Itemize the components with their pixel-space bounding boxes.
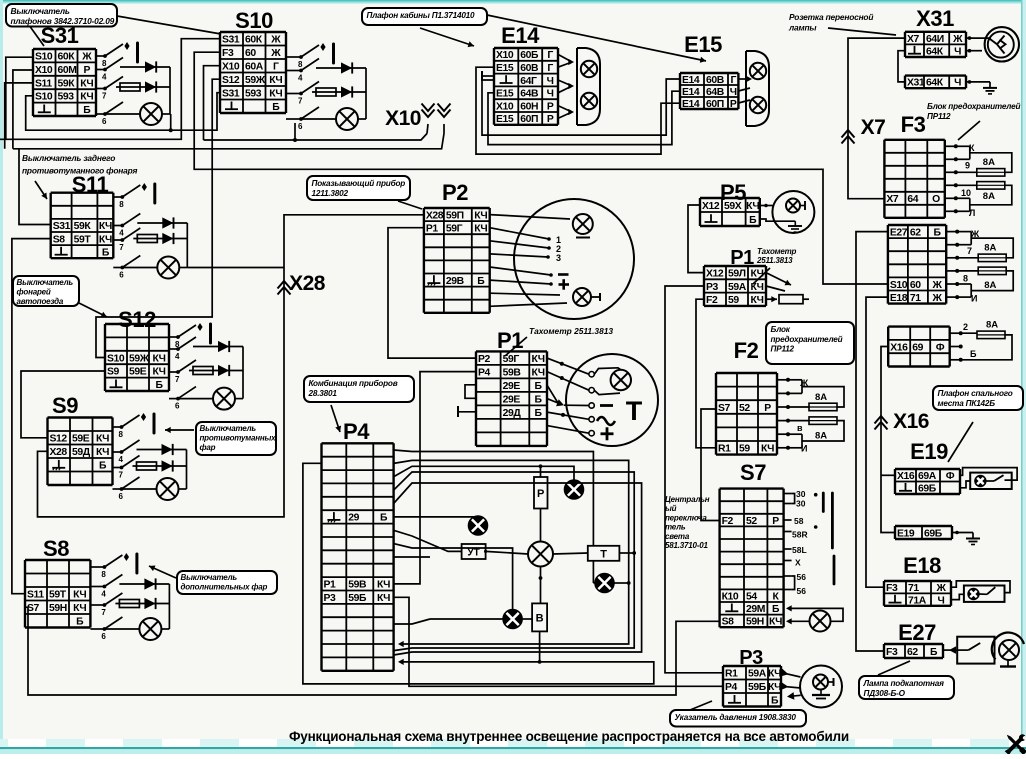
lamp unit E15 title <box>684 32 722 57</box>
svg-text:28.3801: 28.3801 <box>308 389 338 398</box>
svg-text:Ж: Ж <box>952 34 963 45</box>
caption <box>289 729 849 744</box>
wire net 59A P1tach-P3 <box>665 286 723 673</box>
svg-text:59В: 59В <box>348 580 367 591</box>
svg-text:60: 60 <box>245 48 256 59</box>
svg-text:ПР112: ПР112 <box>771 345 795 354</box>
svg-text:Р4: Р4 <box>478 367 491 378</box>
svg-text:КЧ: КЧ <box>768 682 781 693</box>
svg-text:10: 10 <box>961 188 971 198</box>
svg-text:S31: S31 <box>41 23 79 48</box>
svg-text:X31: X31 <box>907 78 925 89</box>
svg-text:F3: F3 <box>901 112 926 137</box>
svg-text:Р4: Р4 <box>343 419 370 444</box>
svg-text:Блок: Блок <box>771 325 791 334</box>
svg-text:29: 29 <box>348 513 359 524</box>
wires X31 to socket <box>966 36 991 52</box>
connector X28 label and arrows <box>278 272 326 295</box>
label text: Выключатель заднего противотуманного фонаря <box>22 153 138 199</box>
svg-text:60В: 60В <box>706 75 725 86</box>
svg-text:59А: 59А <box>748 669 767 680</box>
svg-text:Б: Б <box>535 381 543 392</box>
svg-text:4: 4 <box>101 590 106 599</box>
svg-text:64В: 64В <box>706 87 725 98</box>
svg-text:59К: 59К <box>74 221 92 232</box>
lamp unit E18 title <box>903 553 941 578</box>
svg-text:8А: 8А <box>986 320 998 331</box>
svg-text:S10: S10 <box>35 52 53 63</box>
svg-text:места ПК142Б: места ПК142Б <box>938 399 996 408</box>
svg-text:Б: Б <box>535 408 543 419</box>
svg-text:S11: S11 <box>27 590 44 601</box>
svg-text:60М: 60М <box>58 65 77 76</box>
ground stub left of E14 row3 <box>482 71 494 81</box>
svg-text:КЧ: КЧ <box>750 268 763 279</box>
svg-text:S10: S10 <box>107 353 125 364</box>
svg-text:S8: S8 <box>722 617 735 628</box>
svg-text:69Б: 69Б <box>924 528 943 539</box>
svg-text:Р: Р <box>772 516 779 527</box>
svg-text:предохранителей: предохранителей <box>771 335 843 344</box>
wires P2 to dial <box>490 215 570 307</box>
svg-text:E14: E14 <box>501 23 540 48</box>
svg-text:S11: S11 <box>35 78 52 89</box>
svg-text:Тахометр: Тахометр <box>757 247 797 256</box>
control lamp 4 of P4 <box>503 610 522 629</box>
switch S10 contacts, diodes, resistor and lamp <box>286 43 366 131</box>
connector table P4 <box>322 443 394 671</box>
svg-text:X10: X10 <box>385 107 421 130</box>
connector table S12 <box>105 324 169 391</box>
wire net 60 from S10 to F3 <box>194 52 888 284</box>
svg-text:7: 7 <box>102 92 107 101</box>
svg-text:Показывающий прибор: Показывающий прибор <box>312 178 406 188</box>
svg-text:3: 3 <box>556 253 561 263</box>
svg-text:Указатель давления 1908.3830: Указатель давления 1908.3830 <box>675 713 797 722</box>
wire S10 feeder to F3 <box>0 0 1 1</box>
svg-text:Г: Г <box>730 75 736 86</box>
svg-text:56: 56 <box>797 572 807 582</box>
svg-text:6: 6 <box>101 632 106 641</box>
svg-text:8А: 8А <box>815 392 827 403</box>
instrument P1 tachometer circle <box>566 354 658 446</box>
svg-text:КЧ: КЧ <box>377 580 390 591</box>
svg-text:6: 6 <box>298 122 303 131</box>
label box: Выключатель плафонов 3842.3710-02.09 <box>6 4 221 46</box>
svg-text:71А: 71А <box>908 595 927 606</box>
svg-text:Ж: Ж <box>81 52 92 63</box>
svg-text:Р1: Р1 <box>426 224 439 235</box>
svg-text:Б: Б <box>83 105 91 116</box>
portable-lamp socket symbol <box>985 27 1019 61</box>
svg-text:X28: X28 <box>426 210 444 221</box>
switch S31 contacts, diodes, resistor and lamp <box>96 42 170 126</box>
svg-text:Р1: Р1 <box>497 328 523 353</box>
svg-text:X12: X12 <box>702 201 720 212</box>
svg-text:Б: Б <box>970 349 977 359</box>
svg-text:Ф: Ф <box>946 471 955 482</box>
svg-text:Б: Б <box>477 276 485 287</box>
connector table E27 <box>884 644 943 658</box>
svg-text:Ж: Ж <box>799 378 809 388</box>
svg-text:59В: 59В <box>503 367 522 378</box>
svg-text:56: 56 <box>797 586 807 596</box>
svg-text:59Л: 59Л <box>728 268 746 279</box>
svg-text:Е27: Е27 <box>890 227 908 238</box>
svg-text:F2: F2 <box>734 338 759 363</box>
switch S9 title <box>52 393 78 418</box>
svg-text:S31: S31 <box>53 221 71 232</box>
label box: Плафон спального места ПК142Б <box>933 386 1023 410</box>
box УТ of P4 <box>462 544 486 559</box>
svg-text:Е14: Е14 <box>682 87 700 98</box>
svg-text:КЧ: КЧ <box>96 434 109 445</box>
switch and underhood lamp of E27 <box>943 633 1024 667</box>
svg-text:59Т: 59Т <box>49 590 67 601</box>
svg-text:7: 7 <box>119 471 124 480</box>
connector table S11 <box>51 193 114 259</box>
central light switch S7 title <box>740 460 766 485</box>
svg-text:X16: X16 <box>890 342 908 353</box>
svg-text:58: 58 <box>794 516 804 526</box>
svg-text:КЧ: КЧ <box>377 593 390 604</box>
svg-text:И: И <box>801 444 807 454</box>
svg-text:Е14: Е14 <box>682 99 700 110</box>
wire net 59T S11-S8 <box>12 239 51 594</box>
svg-text:7: 7 <box>175 375 180 384</box>
svg-text:дополнительных фар: дополнительных фар <box>181 582 268 591</box>
svg-text:КЧ: КЧ <box>750 282 763 293</box>
svg-text:Г: Г <box>547 63 553 74</box>
control lamp 3 of P4 <box>595 574 614 593</box>
lamp symbol of P5 <box>772 191 814 233</box>
svg-text:8: 8 <box>102 59 107 68</box>
connector table X16 fuse <box>888 327 950 367</box>
svg-text:59Ж: 59Ж <box>245 75 266 86</box>
svg-text:К10: К10 <box>722 592 739 603</box>
connector table E19 <box>895 469 960 495</box>
svg-text:Е15: Е15 <box>496 89 514 100</box>
switch S10 title <box>235 8 273 33</box>
svg-text:60П: 60П <box>706 99 724 110</box>
connector table S10 <box>220 32 286 113</box>
svg-text:X28: X28 <box>50 447 68 458</box>
lamp housing of E14 with two lamps <box>558 48 600 125</box>
svg-text:КЧ: КЧ <box>152 367 165 378</box>
svg-text:И: И <box>971 294 977 304</box>
svg-text:Лампа подкапотная: Лампа подкапотная <box>863 679 945 688</box>
switch S11 contacts, diodes, resistor and lamp <box>113 183 187 280</box>
fuse block F3 lower table <box>888 225 946 304</box>
label box: Комбинация приборов 28.3801 <box>304 376 414 432</box>
svg-text:593: 593 <box>245 89 262 100</box>
svg-text:Р: Р <box>547 114 554 125</box>
svg-text:Р: Р <box>84 65 91 76</box>
svg-text:59: 59 <box>728 295 739 306</box>
svg-text:КЧ: КЧ <box>474 210 487 221</box>
svg-text:КЧ: КЧ <box>768 669 781 680</box>
svg-text:593: 593 <box>58 92 75 103</box>
connector table P1 tach <box>704 266 766 306</box>
connector X10 label and arrows <box>385 104 450 134</box>
svg-text:4: 4 <box>119 455 124 464</box>
svg-text:S8: S8 <box>43 536 69 561</box>
svg-text:8А: 8А <box>984 243 996 254</box>
svg-text:КЧ: КЧ <box>269 89 282 100</box>
connector table P2 <box>424 208 490 313</box>
svg-text:S12: S12 <box>50 434 68 445</box>
svg-text:2511.3813: 2511.3813 <box>756 256 793 265</box>
svg-text:Б: Б <box>749 215 757 226</box>
label box: Плафон кабины П1.3714010 <box>362 8 706 63</box>
svg-text:59П: 59П <box>446 210 464 221</box>
svg-text:59Ж: 59Ж <box>129 353 150 364</box>
svg-text:S7: S7 <box>27 603 40 614</box>
svg-text:52: 52 <box>746 516 757 527</box>
svg-text:7: 7 <box>119 243 124 252</box>
svg-text:Б: Б <box>76 617 84 628</box>
fuses of F3 upper with terminals K 9 10 Л <box>945 143 1012 218</box>
svg-text:Выключатель: Выключатель <box>200 424 257 433</box>
wire net 59E S12-S9 <box>21 371 105 438</box>
svg-text:КЧ: КЧ <box>769 617 782 628</box>
svg-text:Плафон кабины П1.3714010: Плафон кабины П1.3714010 <box>367 10 476 20</box>
svg-text:R1: R1 <box>718 444 731 455</box>
connector table S9 <box>48 418 113 486</box>
svg-text:F3: F3 <box>886 583 898 594</box>
wire net 69 X16 chain <box>881 347 895 533</box>
svg-text:Центральн: Центральн <box>665 495 710 504</box>
svg-text:Блок предохранителей: Блок предохранителей <box>927 102 1020 111</box>
svg-text:X12: X12 <box>706 268 724 279</box>
svg-text:КЧ: КЧ <box>532 367 545 378</box>
svg-text:КЧ: КЧ <box>746 201 759 212</box>
switch S12 contacts, diodes, resistor and lamp <box>169 323 243 411</box>
svg-text:52: 52 <box>739 403 750 414</box>
wire net 62 from F3 to E27 <box>856 232 888 651</box>
svg-text:59Т: 59Т <box>74 234 92 245</box>
svg-text:Розетка переносной: Розетка переносной <box>789 12 873 22</box>
svg-text:КЧ: КЧ <box>99 221 112 232</box>
svg-text:4: 4 <box>175 352 180 361</box>
svg-text:Ж: Ж <box>932 280 943 291</box>
svg-text:62: 62 <box>910 227 921 238</box>
svg-text:Ч: Ч <box>547 89 554 100</box>
svg-text:60П: 60П <box>520 114 538 125</box>
svg-text:S9: S9 <box>52 393 78 418</box>
resistor fed from P1 tach <box>766 273 809 304</box>
main lamp of P4 <box>528 542 553 567</box>
wire X31 ground link <box>898 51 997 94</box>
svg-text:КЧ: КЧ <box>152 353 165 364</box>
svg-text:X10: X10 <box>222 62 240 73</box>
svg-text:Б: Б <box>772 604 780 615</box>
svg-text:S12: S12 <box>222 75 240 86</box>
connector table S8 <box>25 560 90 628</box>
svg-text:Ч: Ч <box>954 47 961 58</box>
svg-text:Е18: Е18 <box>903 553 941 578</box>
svg-text:69Б: 69Б <box>918 484 937 495</box>
svg-text:Выключатель: Выключатель <box>181 573 238 582</box>
svg-text:8: 8 <box>101 570 106 579</box>
connector table E15 <box>680 73 738 110</box>
svg-text:60А: 60А <box>245 62 264 73</box>
wire net 593 S31-S10 <box>26 93 220 131</box>
instrument cluster P4 title <box>343 419 370 444</box>
svg-text:Ж: Ж <box>970 229 980 239</box>
jumper bracket left of P1 <box>458 385 476 417</box>
svg-text:Б: Б <box>380 513 388 524</box>
svg-text:F3: F3 <box>222 48 234 59</box>
svg-text:Е14: Е14 <box>682 75 700 86</box>
svg-text:X7: X7 <box>907 34 920 45</box>
svg-text:59: 59 <box>739 444 750 455</box>
svg-text:КЧ: КЧ <box>73 603 86 614</box>
svg-text:6: 6 <box>175 402 180 411</box>
label text: Тахометр 2511.3813 (P2) <box>505 326 613 356</box>
tools icon <box>1004 733 1026 756</box>
svg-text:Е18: Е18 <box>890 293 908 304</box>
rheostat Р of P4 <box>534 477 548 509</box>
connector table P5 <box>700 198 760 226</box>
svg-text:6: 6 <box>119 271 124 280</box>
pressure gauge symbol of P3 <box>780 666 842 708</box>
wire net X12 P5-P1tach <box>688 205 704 273</box>
wire net 60K S31-S10 <box>0 39 220 140</box>
svg-text:X10: X10 <box>496 50 514 61</box>
svg-text:64Г: 64Г <box>520 76 537 87</box>
connector table E14 <box>494 48 558 125</box>
svg-text:К: К <box>969 143 975 153</box>
switch S31 title <box>41 23 79 48</box>
wire net X7 from X31 to fuse block F3 <box>848 38 905 199</box>
svg-text:8: 8 <box>963 274 968 284</box>
svg-text:59Б: 59Б <box>748 682 767 693</box>
wire S31 lamp run <box>169 114 173 132</box>
instrument P1 title <box>497 328 523 353</box>
switch S12 title <box>118 307 156 332</box>
svg-text:59Б: 59Б <box>348 593 367 604</box>
svg-text:КЧ: КЧ <box>96 447 109 458</box>
svg-text:X10: X10 <box>496 101 514 112</box>
svg-text:S10: S10 <box>890 280 908 291</box>
wires of instrument cluster P4 <box>303 450 654 684</box>
connector X16 label and arrows <box>875 410 929 433</box>
svg-text:69А: 69А <box>918 471 937 482</box>
fuse block F2 table <box>716 373 777 455</box>
svg-text:Т: Т <box>600 549 607 561</box>
fuse block F2 title <box>734 338 759 363</box>
svg-text:в: в <box>797 423 803 433</box>
svg-text:64К: 64К <box>926 47 944 58</box>
svg-text:КЧ: КЧ <box>80 92 93 103</box>
svg-text:тель: тель <box>665 523 686 532</box>
svg-text:Б: Б <box>99 461 107 472</box>
svg-text:Ж: Ж <box>936 583 947 594</box>
svg-text:29Е: 29Е <box>503 381 521 392</box>
svg-text:S10: S10 <box>35 92 53 103</box>
svg-text:S10: S10 <box>235 8 273 33</box>
label box: Блок предохранителей ПР112 (F2) <box>766 322 854 364</box>
switch S9 contacts, diodes, resistor and lamp <box>113 413 187 501</box>
wires P1 to tachometer <box>547 358 589 433</box>
svg-text:64К: 64К <box>926 78 944 89</box>
svg-text:S8: S8 <box>53 234 66 245</box>
svg-text:59А: 59А <box>728 282 747 293</box>
wire S11 run to X28 <box>187 267 284 269</box>
instrument P2 title <box>442 180 468 205</box>
svg-text:Ж: Ж <box>270 35 281 46</box>
svg-text:Р1: Р1 <box>324 580 337 591</box>
label text: Розетка переносной лампы <box>788 12 896 35</box>
svg-text:71: 71 <box>908 583 919 594</box>
svg-text:64В: 64В <box>520 89 539 100</box>
svg-text:Выключатель заднего: Выключатель заднего <box>22 153 115 163</box>
label box: Лампа подкапотная ПД308-Б-О <box>859 661 954 699</box>
svg-text:R1: R1 <box>725 669 738 680</box>
svg-text:Функциональная схема внутренне: Функциональная схема внутреннее освещени… <box>289 729 849 744</box>
svg-text:9: 9 <box>965 161 970 171</box>
pilot lamp of S7 <box>786 605 843 631</box>
svg-text:29Д: 29Д <box>503 408 522 419</box>
svg-text:ПД308-Б-О: ПД308-Б-О <box>864 689 906 698</box>
svg-text:Е19: Е19 <box>897 528 915 539</box>
control lamp 2 of P4 <box>469 516 488 535</box>
svg-text:Б: Б <box>933 227 941 238</box>
fuse block F3 title <box>901 112 926 137</box>
svg-text:59Е: 59Е <box>72 434 90 445</box>
svg-text:6: 6 <box>102 117 107 126</box>
svg-text:8А: 8А <box>815 431 827 442</box>
connector table X31 <box>905 32 966 58</box>
svg-text:F2: F2 <box>706 295 718 306</box>
svg-text:F3: F3 <box>886 647 898 658</box>
svg-text:F2: F2 <box>722 516 734 527</box>
svg-text:8А: 8А <box>983 157 995 168</box>
svg-text:59К: 59К <box>58 78 76 89</box>
connector table S31 <box>33 49 96 116</box>
switch S8 title <box>43 536 69 561</box>
svg-text:Ф: Ф <box>936 342 945 353</box>
svg-text:Р3: Р3 <box>324 593 337 604</box>
svg-text:6: 6 <box>119 492 124 501</box>
svg-text:КЧ: КЧ <box>73 590 86 601</box>
wire X10 horizontal runs <box>13 123 444 149</box>
connector table P3 <box>723 666 781 707</box>
svg-text:59Н: 59Н <box>746 617 764 628</box>
svg-text:Б: Б <box>102 248 110 259</box>
plafond symbol of E19 <box>960 468 1017 489</box>
svg-text:Х31: Х31 <box>916 6 954 31</box>
svg-text:60: 60 <box>910 280 921 291</box>
svg-text:7: 7 <box>298 97 303 106</box>
svg-text:8: 8 <box>298 60 303 69</box>
svg-text:Комбинация приборов: Комбинация приборов <box>309 378 398 388</box>
svg-text:S9: S9 <box>107 367 120 378</box>
wires P5 <box>760 204 774 222</box>
svg-text:Б: Б <box>771 696 779 707</box>
svg-text:Р2: Р2 <box>478 354 491 365</box>
wire net 60A S10 to X10 <box>204 66 221 140</box>
label box: Выключатель противотуманных фар <box>165 422 276 455</box>
svg-text:59Х: 59Х <box>724 201 742 212</box>
fuses of F3 lower with terminals Ж 7 8 И <box>946 229 1013 304</box>
svg-text:8: 8 <box>119 200 124 209</box>
svg-text:X7: X7 <box>861 116 886 139</box>
svg-text:8: 8 <box>119 430 124 439</box>
svg-text:Выключатель: Выключатель <box>11 6 70 16</box>
svg-text:X7: X7 <box>886 194 899 205</box>
